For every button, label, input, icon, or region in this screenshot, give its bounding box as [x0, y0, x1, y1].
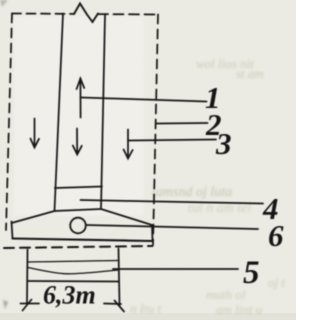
footing flare right diagonal — [101, 209, 152, 225]
paper light center patch — [14, 16, 144, 216]
svg-text:6,3m: 6,3m — [43, 281, 96, 310]
footing flare left diagonal — [12, 211, 55, 223]
scan fleck bottom-left — [3, 300, 8, 309]
dimension line right segment — [104, 303, 121, 306]
down arrow left outside shaft — [34, 119, 36, 147]
leader line 3 — [128, 140, 216, 141]
lower block inner line — [28, 261, 118, 263]
down arrow inside column head — [73, 146, 82, 155]
leader line 2 — [157, 122, 208, 125]
dashed boundary rectangle : left edge — [6, 14, 12, 231]
pedestal top line across column — [55, 187, 102, 189]
bottom edge shade — [0, 313, 296, 320]
ghost bleed-through text upper right — [196, 56, 264, 81]
svg-text:3: 3 — [215, 126, 232, 161]
dimension arrow tick right — [115, 301, 125, 312]
dimension arrow tick left — [23, 300, 32, 311]
dashed boundary rectangle : top edge right part — [98, 13, 158, 15]
ghost bleed-through text lower right — [130, 275, 285, 317]
dashed boundary rectangle (element 2) : top edge left part — [12, 13, 74, 15]
down arrow left outside head — [30, 139, 39, 148]
lower block left edge with extension — [26, 250, 29, 304]
svg-text:st am: st am — [236, 66, 264, 81]
ghost bleed-through text middle right — [152, 185, 251, 216]
down arrow right shaft — [127, 130, 129, 158]
svg-text:5: 5 — [243, 255, 260, 291]
leader line 5 — [113, 268, 238, 270]
svg-text:am lint u: am lint u — [216, 302, 263, 317]
circle marker (element 6) — [70, 218, 86, 234]
up arrow force shaft — [79, 79, 81, 118]
lower block bottom edge — [28, 280, 120, 283]
svg-text:muth ol: muth ol — [206, 287, 246, 302]
svg-text:6: 6 — [268, 218, 284, 253]
footing slab bottom edge — [13, 239, 153, 242]
column bottom line — [55, 209, 102, 211]
svg-text:tamsnd oj luta: tamsnd oj luta — [152, 185, 232, 200]
leader line 6 — [86, 225, 258, 229]
svg-text:oj t: oj t — [268, 275, 285, 290]
lower block right edge with extension — [119, 249, 120, 306]
dimension line left segment — [21, 303, 40, 305]
footing slab right edge — [151, 225, 154, 241]
dashed boundary rectangle : bottom edge — [4, 246, 153, 248]
up arrow head — [77, 79, 85, 90]
svg-text:n Itu t: n Itu t — [130, 301, 161, 316]
lower block wavy soil line — [28, 268, 118, 274]
down arrow right head — [124, 150, 133, 159]
break mark at column top — [74, 4, 98, 23]
column right edge — [101, 15, 105, 209]
down arrow inside column shaft — [76, 129, 78, 154]
column left edge — [55, 14, 64, 212]
leader line 1 — [81, 98, 207, 102]
scan fleck top-left corner — [0, 0, 8, 7]
footing slab left edge — [12, 222, 13, 239]
leader line 4 — [81, 200, 264, 204]
dashed boundary rectangle : right edge — [153, 15, 158, 246]
